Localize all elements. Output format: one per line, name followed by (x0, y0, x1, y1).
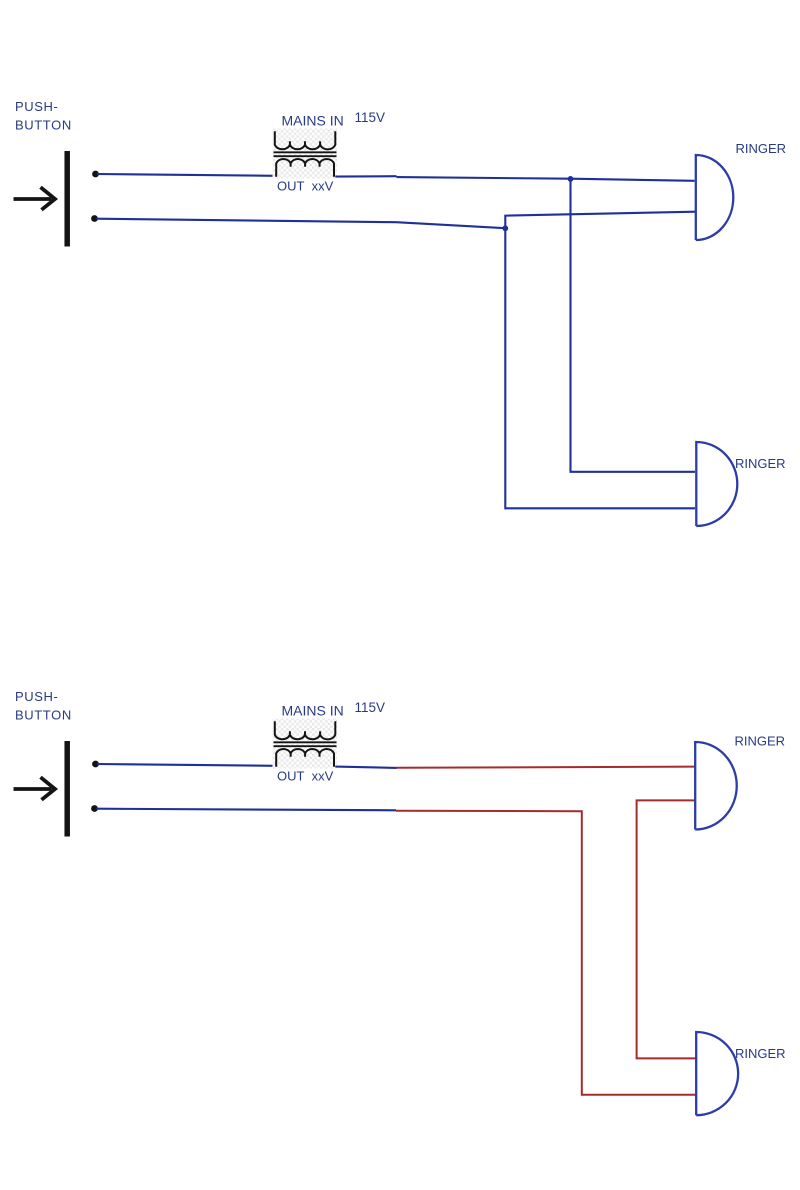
wire: push-button lower blue run (97, 809, 397, 811)
wire: junction A up to ringer R1 bottom terminal (505, 212, 695, 229)
terminal dot (top, bottom circuit) (92, 761, 99, 768)
wire: transformer T2 secondary-right blue stub (335, 767, 396, 768)
transformer T2 core (274, 742, 337, 746)
wire (red): ringer R3 bottom terminal down to ringer R4 top terminal (637, 800, 696, 1058)
svg-text:MAINS IN: MAINS IN (282, 113, 344, 129)
wire: push-button to transformer T2 primary-left (97, 764, 275, 766)
wire: to ringer R1 top terminal (397, 177, 695, 181)
wire: push-button to transformer primary-left (97, 174, 275, 176)
transformer T1 core (274, 152, 337, 156)
svg-text:PUSH-: PUSH- (15, 99, 58, 114)
transformer T2 secondary winding (276, 749, 334, 767)
svg-text:115V: 115V (355, 110, 386, 125)
push direction arrow (14, 187, 56, 210)
terminal dot (bottom, bottom circuit) (91, 805, 98, 812)
wire: junction A down to ringer R2 bottom terminal (505, 228, 695, 508)
push-button plate SW2 (64, 741, 70, 837)
push direction arrow (bottom circuit) (14, 777, 56, 800)
label PUSH-BUTTON (bottom circuit) (15, 689, 72, 722)
transformer T1 secondary winding (276, 159, 334, 177)
transformer T2 background (273, 719, 338, 769)
transformer T2 primary winding (275, 721, 336, 739)
wire: transformer secondary-right stub (335, 175, 396, 178)
wire: push-button lower to junction A (97, 219, 506, 229)
svg-text:RINGER: RINGER (735, 734, 786, 749)
push-button plate SW1 (64, 151, 70, 247)
wire: junction B down to ringer R2 top terminal (571, 179, 696, 472)
svg-text:MAINS IN: MAINS IN (282, 703, 344, 719)
svg-text:115V: 115V (355, 700, 386, 715)
ringer R1 (696, 155, 734, 240)
wire (red): transformer T2 to ringer R3 top terminal (397, 767, 696, 768)
junction node A (502, 225, 508, 231)
svg-text:RINGER: RINGER (735, 1046, 786, 1061)
junction node B (568, 176, 574, 182)
svg-text:OUT xxV: OUT xxV (277, 178, 334, 193)
label PUSH-BUTTON (top circuit) (15, 99, 72, 132)
wire (red): lower run to ringer R4 bottom terminal (396, 811, 695, 1095)
svg-text:OUT xxV: OUT xxV (277, 768, 334, 783)
svg-text:BUTTON: BUTTON (15, 117, 72, 132)
transformer T1 primary winding (275, 131, 336, 149)
svg-text:RINGER: RINGER (736, 141, 787, 156)
ringer R2 (696, 442, 737, 526)
svg-text:PUSH-: PUSH- (15, 689, 58, 704)
svg-text:BUTTON: BUTTON (15, 707, 72, 722)
terminal dot (bottom) (91, 215, 98, 222)
ringer R3 (695, 742, 737, 830)
svg-text:RINGER: RINGER (735, 456, 786, 471)
transformer T1 background (273, 129, 338, 179)
ringer R4 (696, 1032, 738, 1115)
terminal dot (top) (92, 171, 99, 178)
